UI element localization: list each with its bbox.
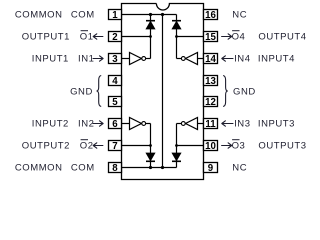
wire: right top diode column x176 bbox=[176, 15, 178, 59]
svg-text:15: 15 bbox=[205, 32, 216, 43]
svg-text:NC: NC bbox=[232, 163, 247, 174]
svg-text:O2: O2 bbox=[80, 141, 94, 152]
diode D2 clamp (down) on x150 bbox=[146, 153, 155, 161]
svg-text:OUTPUT4: OUTPUT4 bbox=[258, 32, 306, 43]
junction dot pin15 net bbox=[175, 35, 178, 38]
svg-text:OUTPUT1: OUTPUT1 bbox=[22, 32, 70, 43]
pin 9 box bbox=[204, 163, 218, 174]
pin 5 box bbox=[109, 97, 122, 108]
svg-text:12: 12 bbox=[205, 97, 216, 108]
wire: left top diode column x150 bbox=[150, 15, 152, 59]
wire: pin2 output stub bbox=[122, 36, 151, 38]
wire: pin6 input stub bbox=[122, 123, 130, 125]
wire: right bottom diode column x176 bbox=[176, 124, 178, 168]
label INPUT3 pin11 bbox=[234, 119, 295, 130]
pin 2 box bbox=[109, 32, 122, 43]
op-amp/inverter U1a (IN1) bbox=[130, 53, 146, 65]
wire: inverter1 output link bbox=[146, 58, 151, 60]
svg-text:5: 5 bbox=[112, 97, 118, 108]
svg-text:COM: COM bbox=[71, 163, 95, 174]
svg-text:INPUT4: INPUT4 bbox=[258, 54, 295, 65]
arrow right pin15 bbox=[222, 34, 232, 39]
label INPUT4 pin14 bbox=[234, 54, 295, 65]
arrow left pin11 bbox=[222, 121, 233, 126]
svg-text:4: 4 bbox=[112, 76, 118, 87]
brace right GND pins 12-13 bbox=[223, 76, 228, 107]
wire: pin15 output stub bbox=[177, 36, 204, 38]
op-amp/inverter U1c (IN3) bbox=[181, 118, 197, 130]
label INPUT1 pin3 bbox=[32, 54, 95, 65]
wire: pin7 output stub bbox=[122, 145, 151, 147]
svg-text:IN4: IN4 bbox=[234, 54, 250, 65]
svg-text:IN1: IN1 bbox=[78, 54, 94, 65]
diode D1 clamp (up) on x150 bbox=[146, 21, 155, 29]
label NC pin16 bbox=[232, 10, 247, 21]
svg-text:O3: O3 bbox=[232, 141, 246, 152]
pin 14 box bbox=[204, 54, 218, 65]
svg-text:OUTPUT2: OUTPUT2 bbox=[22, 141, 70, 152]
svg-text:O1: O1 bbox=[80, 32, 94, 43]
pin 12 box bbox=[204, 97, 218, 108]
junction dot top rail at x150 bbox=[149, 13, 152, 16]
label OUTPUT3 pin10 bbox=[232, 141, 307, 152]
wire: inverter3 output link bbox=[177, 123, 182, 125]
svg-text:6: 6 bbox=[112, 119, 118, 130]
junction dot bottom rail at x162 bbox=[161, 166, 164, 169]
pin 8 box bbox=[109, 163, 122, 174]
arrow left pin7 bbox=[93, 143, 103, 148]
svg-text:3: 3 bbox=[112, 54, 118, 65]
overline O3 bbox=[232, 139, 239, 141]
arrow left pin14 bbox=[222, 56, 233, 61]
IC package U1 outline with notch bbox=[122, 4, 204, 180]
svg-text:1: 1 bbox=[112, 10, 118, 21]
wire: center vertical COM bus bbox=[162, 15, 164, 168]
svg-text:NC: NC bbox=[232, 10, 247, 21]
wire: top COM rail pin1 to right diode column bbox=[122, 14, 177, 16]
label COMMON pin1 bbox=[15, 10, 95, 21]
wire: pin11 input stub bbox=[198, 123, 204, 125]
svg-text:IN3: IN3 bbox=[234, 119, 250, 130]
svg-text:10: 10 bbox=[205, 141, 216, 152]
svg-text:8: 8 bbox=[112, 163, 118, 174]
svg-text:13: 13 bbox=[205, 76, 216, 87]
svg-text:INPUT1: INPUT1 bbox=[32, 54, 69, 65]
wire: inverter2 output link bbox=[146, 123, 151, 125]
op-amp/inverter U1b (IN2) bbox=[130, 118, 146, 130]
junction dot top rail at x162 bbox=[161, 13, 164, 16]
junction dot bottom rail at x150 bbox=[149, 166, 152, 169]
overline O2 bbox=[81, 139, 88, 141]
wire: bottom COM rail pin8 to right diode column bbox=[122, 167, 177, 169]
arrow right pin3 bbox=[93, 56, 103, 61]
pin 7 box bbox=[109, 141, 122, 152]
svg-text:COM: COM bbox=[71, 10, 95, 21]
pin 11 box bbox=[204, 119, 218, 130]
pin 6 box bbox=[109, 119, 122, 130]
pin 1 box bbox=[109, 10, 122, 21]
arrow left pin2 bbox=[93, 34, 103, 39]
label GND left bbox=[70, 86, 93, 97]
label OUTPUT4 pin15 bbox=[232, 32, 307, 43]
svg-text:16: 16 bbox=[205, 10, 216, 21]
junction dot pin7 net bbox=[149, 144, 152, 147]
pin 10 box bbox=[204, 141, 218, 152]
junction dot pin10 net bbox=[175, 144, 178, 147]
svg-text:14: 14 bbox=[205, 54, 216, 65]
wire: pin10 output stub bbox=[177, 145, 204, 147]
label INPUT2 pin6 bbox=[32, 119, 95, 130]
svg-text:9: 9 bbox=[208, 163, 214, 174]
svg-text:IN2: IN2 bbox=[78, 119, 94, 130]
pin 16 box bbox=[204, 10, 218, 21]
svg-text:11: 11 bbox=[205, 119, 216, 130]
svg-text:7: 7 bbox=[112, 141, 117, 152]
op-amp/inverter U1d (IN4) bbox=[181, 53, 197, 65]
wire: left bottom diode column x150 bbox=[150, 124, 152, 168]
diode D4 clamp (up) on x176 bbox=[172, 21, 181, 29]
wire: pin3 input stub bbox=[122, 58, 130, 60]
svg-text:OUTPUT3: OUTPUT3 bbox=[258, 141, 306, 152]
label COMMON pin8 bbox=[15, 163, 95, 174]
svg-text:2: 2 bbox=[112, 32, 117, 43]
pin 13 box bbox=[204, 76, 218, 87]
svg-text:GND: GND bbox=[70, 86, 93, 97]
svg-text:INPUT2: INPUT2 bbox=[32, 119, 69, 130]
svg-text:COMMON: COMMON bbox=[15, 10, 63, 21]
svg-text:INPUT3: INPUT3 bbox=[258, 119, 295, 130]
wire: inverter4 output link bbox=[177, 58, 182, 60]
overline O1 bbox=[81, 30, 88, 32]
overline O4 bbox=[232, 30, 239, 32]
arrow right pin10 bbox=[222, 143, 232, 148]
pin 3 box bbox=[109, 54, 122, 65]
pin 15 box bbox=[204, 32, 218, 43]
junction dot pin2 net bbox=[149, 35, 152, 38]
svg-text:O4: O4 bbox=[232, 32, 246, 43]
svg-text:GND: GND bbox=[233, 86, 256, 97]
label NC pin9 bbox=[232, 163, 247, 174]
label OUTPUT1 pin2 bbox=[22, 32, 94, 43]
diode D3 clamp (down) on x176 bbox=[172, 153, 181, 161]
brace left GND pins 4-5 bbox=[97, 76, 102, 107]
svg-text:COMMON: COMMON bbox=[15, 163, 63, 174]
pin 4 box bbox=[109, 76, 122, 87]
arrow right pin6 bbox=[93, 121, 103, 126]
wire: pin14 input stub bbox=[198, 58, 204, 60]
label OUTPUT2 pin7 bbox=[22, 141, 94, 152]
label GND right bbox=[233, 86, 256, 97]
